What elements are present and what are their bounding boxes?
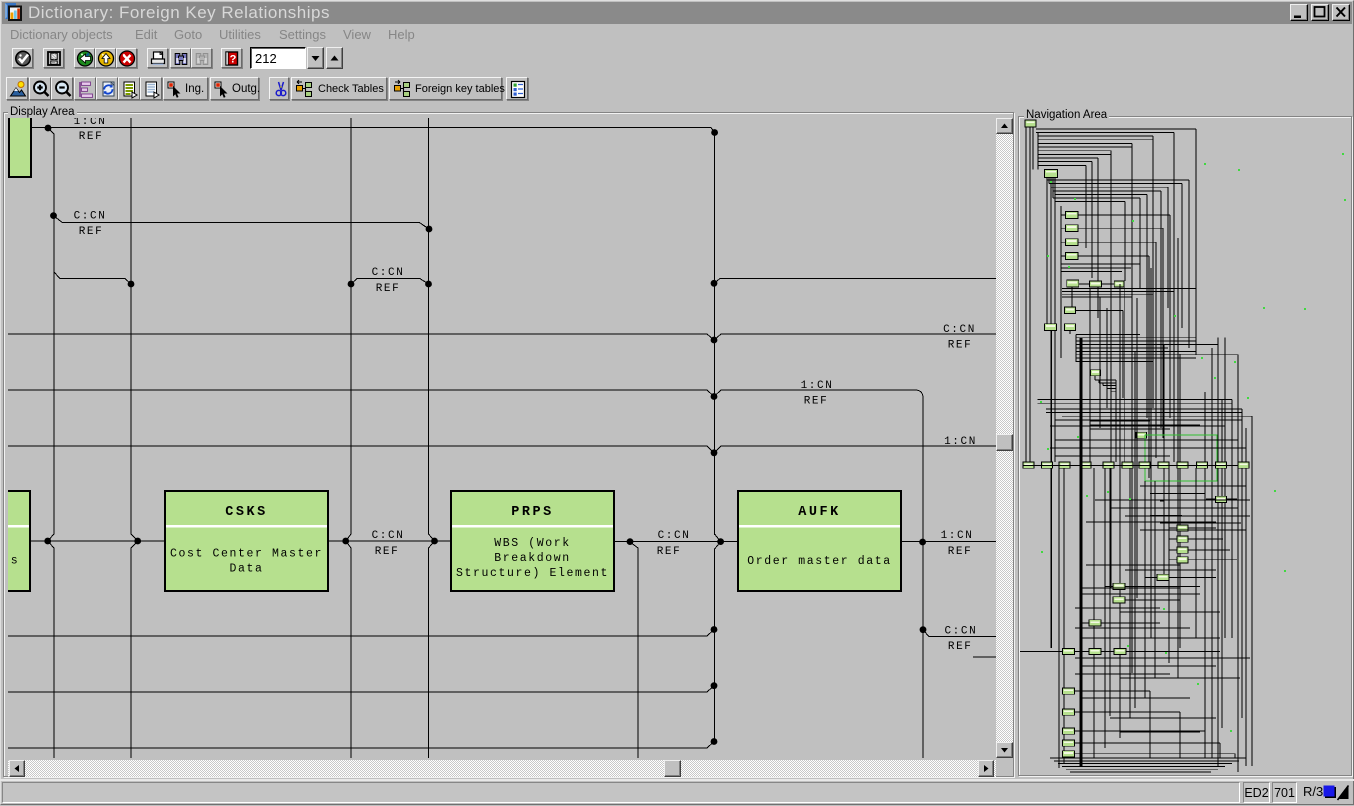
svg-text:REF: REF: [948, 340, 973, 352]
svg-text:C:CN: C:CN: [943, 324, 976, 336]
svg-text:s: s: [11, 555, 20, 568]
svg-text:WBS (Work: WBS (Work: [494, 537, 571, 550]
svg-text:Structure) Element: Structure) Element: [456, 567, 609, 580]
svg-text:1:CN: 1:CN: [941, 530, 974, 542]
svg-text:?: ?: [230, 54, 237, 66]
svg-text:AUFK: AUFK: [798, 505, 840, 520]
svg-text:REF: REF: [376, 283, 401, 295]
svg-text:Breakdown: Breakdown: [494, 552, 571, 565]
svg-text:C:CN: C:CN: [944, 626, 977, 638]
svg-text:Order master data: Order master data: [747, 555, 892, 568]
svg-text:C:CN: C:CN: [372, 530, 405, 542]
svg-text:Cost Center Master: Cost Center Master: [170, 548, 323, 561]
svg-text:REF: REF: [657, 546, 682, 558]
svg-text:REF: REF: [79, 226, 104, 238]
svg-text:C:CN: C:CN: [372, 267, 405, 279]
svg-text:C:CN: C:CN: [74, 211, 107, 223]
svg-text:REF: REF: [948, 641, 973, 653]
svg-text:REF: REF: [375, 546, 400, 558]
svg-text:1:CN: 1:CN: [74, 118, 107, 128]
svg-text:CSKS: CSKS: [225, 505, 267, 520]
svg-text:1:CN: 1:CN: [801, 380, 834, 392]
svg-text:REF: REF: [79, 131, 104, 143]
svg-text:Data: Data: [229, 563, 263, 576]
svg-text:C:CN: C:CN: [658, 530, 691, 542]
svg-text:REF: REF: [948, 546, 973, 558]
svg-text:PRPS: PRPS: [511, 505, 553, 520]
svg-text:REF: REF: [804, 396, 829, 408]
svg-text:1:CN: 1:CN: [944, 436, 977, 448]
